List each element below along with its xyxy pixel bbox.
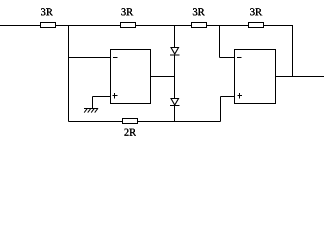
wire R2 to R3 through diode node — [136, 25, 192, 27]
wire junction down to U2 inverting input — [219, 26, 221, 58]
label 2R of R5 — [124, 129, 136, 136]
op-amp U2 minus label — [237, 57, 242, 59]
wire op-amp U2 noninverting input — [221, 96, 235, 98]
resistor R1 — [41, 23, 56, 28]
wire R1 to R2 through node A — [56, 25, 121, 27]
wire top to diode D1 — [174, 26, 176, 48]
ground — [84, 108, 98, 112]
diode D2 — [170, 99, 180, 106]
resistor R4 — [249, 23, 264, 28]
resistor R2 — [121, 23, 136, 28]
op-amp U2 plus label — [238, 93, 243, 99]
wire 2R to right corner — [138, 121, 221, 123]
wire diode D1 to diode D2 — [174, 55, 176, 98]
resistor R5 2R — [123, 119, 138, 124]
op-amp U1 — [111, 50, 151, 104]
wire op-amp U2 output — [276, 76, 324, 78]
label 3R of R3 — [193, 8, 205, 15]
op-amp U1 minus label — [113, 57, 118, 59]
wire R3 to R4 through junction — [207, 25, 249, 27]
label 3R of R2 — [121, 8, 133, 15]
wire down to ground — [92, 97, 94, 109]
wire bottom node A to 2R — [69, 121, 123, 123]
label 3R of R1 — [41, 8, 53, 15]
wire op-amp U1 output — [151, 76, 175, 78]
wire diode D2 to bottom wire — [174, 106, 176, 122]
diode D1 — [170, 48, 180, 56]
wire to op-amp U2 inverting input — [220, 57, 235, 59]
resistor R3 — [192, 23, 207, 28]
wire up to op-amp U2 noninverting input — [220, 97, 222, 122]
wire node A to op-amp U1 inverting input — [69, 57, 111, 59]
wire R4 to feedback corner — [264, 25, 294, 27]
label 3R of R4 — [250, 8, 262, 15]
wire op-amp U1 noninverting input — [93, 96, 111, 98]
wire feedback vertical — [292, 26, 294, 77]
op-amp U1 plus label — [113, 93, 118, 99]
op-amp U2 — [235, 50, 276, 104]
wire input left to R1 — [0, 25, 40, 27]
wire node A vertical — [68, 26, 70, 122]
